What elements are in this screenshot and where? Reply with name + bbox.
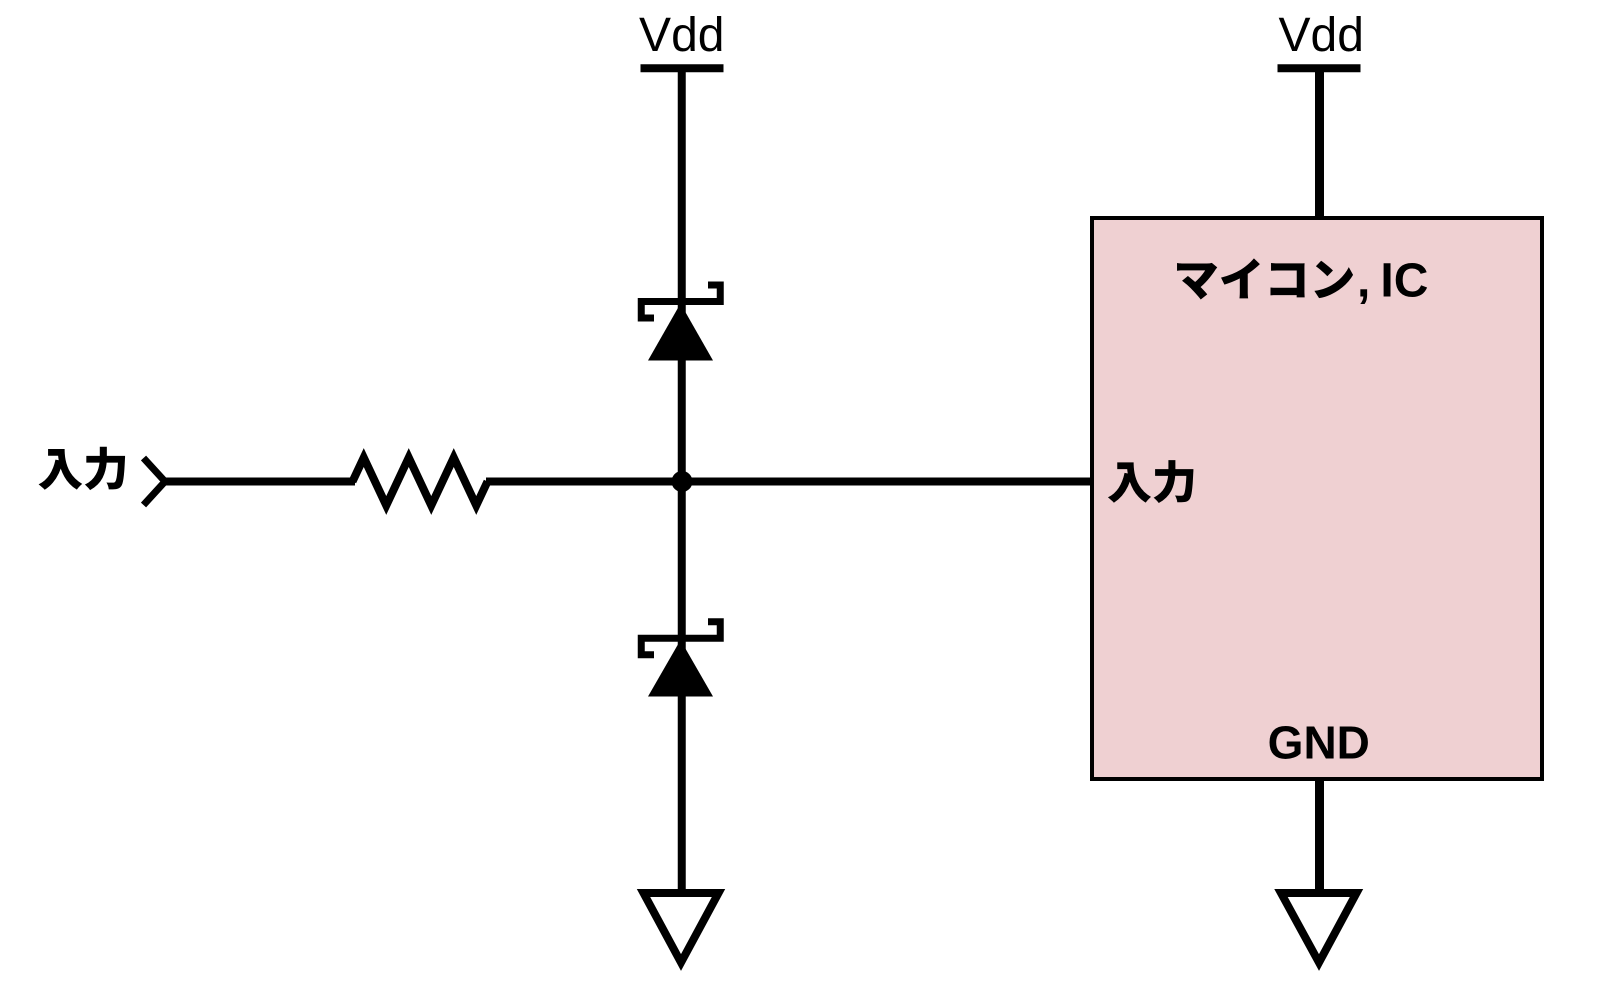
schottky diode D2 (clamp to ground): cathode bar with hooks + triangle (641, 622, 720, 697)
wire: resistor R1 to IC input pin (through junction) (486, 478, 1094, 486)
wire: left Vdd rail down through diodes to ground (678, 68, 686, 895)
label マイコン (on IC) (1177, 258, 1353, 299)
input port connector (chevron) (144, 458, 166, 505)
label 入力 (input signal) (39, 447, 125, 490)
power symbol Vdd (right rail) (1278, 64, 1361, 72)
ground symbol (right, below IC) (1281, 893, 1357, 963)
svg-text:Vdd: Vdd (1278, 9, 1363, 62)
node: junction of resistor, clamp diodes and IC input (672, 471, 693, 492)
svg-text:IC: IC (1380, 255, 1428, 308)
schottky diode D1 (clamp to Vdd): cathode bar with hooks + triangle (641, 285, 720, 361)
svg-text:Vdd: Vdd (639, 9, 724, 62)
svg-text:,: , (1357, 255, 1370, 308)
pin label 入力 (IC input pin) (1108, 460, 1194, 503)
ground symbol (left, below D2) (644, 893, 719, 963)
power symbol Vdd (left rail) (641, 64, 724, 72)
wire: right Vdd rail to IC top (1315, 68, 1324, 220)
IC U1 (microcontroller) body (1092, 218, 1542, 779)
wire: IC GND pin to ground (1315, 779, 1324, 895)
svg-text:GND: GND (1268, 717, 1370, 769)
resistor R1 (series input resistor) (353, 458, 488, 506)
wire: input connector to resistor R1 (165, 478, 355, 486)
